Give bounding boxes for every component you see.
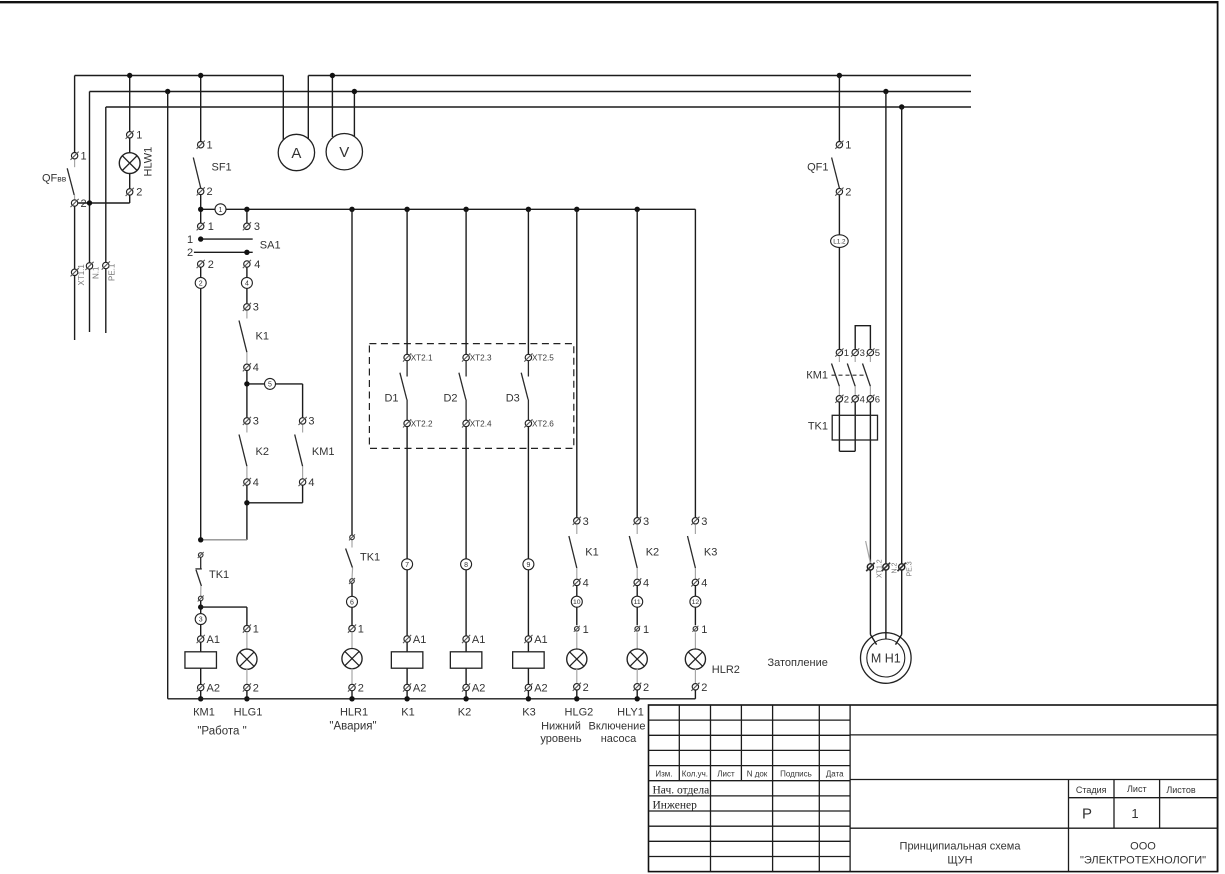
- svg-text:K2: K2: [458, 707, 471, 719]
- svg-text:K3: K3: [522, 707, 535, 719]
- wire D2 riser: [463, 207, 468, 354]
- svg-text:Изм.: Изм.: [655, 770, 672, 779]
- svg-text:3: 3: [199, 617, 203, 624]
- wire HLW1 branch: [127, 73, 132, 132]
- terminal PE.1: [102, 261, 117, 333]
- wire QF1 riser: [837, 73, 842, 141]
- svg-text:2: 2: [583, 682, 589, 694]
- title block document name: [900, 841, 1022, 867]
- node 1: [215, 204, 226, 215]
- svg-text:A1: A1: [472, 634, 485, 646]
- ammeter A: [278, 76, 314, 171]
- wire motor slash: [866, 541, 871, 563]
- svg-text:XT1.1: XT1.1: [77, 264, 86, 286]
- breaker SF1: [193, 140, 231, 199]
- wire KM1 pole2-pole3 hook: [855, 326, 870, 349]
- svg-text:Стадия: Стадия: [1076, 785, 1107, 795]
- wire motor leads: [870, 570, 901, 645]
- svg-text:1: 1: [253, 624, 259, 636]
- svg-text:1: 1: [208, 221, 214, 233]
- wire node4 riser: [246, 268, 248, 304]
- contact K1: [569, 516, 599, 590]
- svg-text:2: 2: [208, 259, 214, 271]
- svg-text:Р: Р: [1082, 806, 1092, 823]
- svg-text:ЩУН: ЩУН: [947, 855, 972, 867]
- svg-text:М Н1: М Н1: [871, 652, 901, 666]
- svg-text:QF1: QF1: [807, 162, 828, 174]
- svg-text:1: 1: [701, 624, 707, 636]
- breaker QFвв: [42, 151, 87, 211]
- svg-text:1: 1: [844, 348, 849, 359]
- sensor D3: [506, 361, 529, 421]
- motor M H1: [861, 633, 912, 684]
- svg-text:3: 3: [308, 416, 314, 428]
- svg-text:Инженер: Инженер: [653, 800, 698, 812]
- lamp HLR2: [685, 624, 740, 699]
- wire D3 to K3 coil: [527, 427, 529, 636]
- svg-text:2: 2: [81, 198, 87, 210]
- wire D1 to K1 coil: [406, 427, 408, 636]
- svg-text:3: 3: [254, 221, 260, 233]
- svg-text:XT2.2: XT2.2: [411, 419, 433, 428]
- svg-text:D1: D1: [384, 393, 398, 405]
- node 6: [347, 583, 358, 625]
- svg-text:насоса: насоса: [601, 733, 637, 745]
- svg-text:HLY1: HLY1: [617, 707, 644, 719]
- svg-text:4: 4: [254, 259, 260, 271]
- wire node3 junction: [198, 601, 247, 636]
- wire QF1 to L1.2: [838, 195, 840, 235]
- svg-text:1: 1: [1131, 806, 1138, 821]
- svg-text:D2: D2: [443, 393, 457, 405]
- svg-text:2: 2: [207, 186, 213, 198]
- title block company name: [1080, 841, 1206, 867]
- svg-text:4: 4: [245, 281, 249, 288]
- wire N bus: [90, 91, 972, 93]
- wire L1 phase bus: [75, 75, 971, 77]
- svg-text:КМ1: КМ1: [193, 707, 215, 719]
- title block header labels: [655, 770, 844, 779]
- svg-text:3: 3: [860, 348, 865, 359]
- svg-text:Лист: Лист: [717, 770, 735, 779]
- terminal N.2: [882, 563, 899, 574]
- svg-text:XT2.1: XT2.1: [411, 353, 433, 362]
- svg-text:Кол.уч.: Кол.уч.: [682, 770, 708, 779]
- wire SF1 riser: [198, 73, 203, 141]
- terminal N.1: [85, 262, 100, 332]
- contact TK1 NO: [346, 534, 381, 584]
- coil KM1: [185, 634, 247, 738]
- svg-text:3: 3: [701, 516, 707, 528]
- node 9: [523, 559, 534, 570]
- terminal XT2.6: [524, 419, 554, 428]
- svg-text:7: 7: [405, 562, 409, 569]
- svg-text:TK1: TK1: [209, 569, 229, 581]
- title block: [649, 705, 1218, 872]
- svg-text:6: 6: [875, 394, 880, 405]
- svg-text:4: 4: [583, 577, 589, 589]
- wire QF input riser: [74, 76, 76, 153]
- svg-text:уровень: уровень: [540, 733, 582, 745]
- coil K3: [513, 634, 548, 719]
- wire node2 riser: [200, 268, 202, 540]
- lamp HLG1: [234, 624, 263, 719]
- svg-text:QFвв: QFвв: [42, 173, 67, 185]
- node 2: [195, 277, 206, 288]
- svg-text:1: 1: [358, 624, 364, 636]
- svg-text:2: 2: [845, 186, 851, 198]
- lamp HLW1: [119, 130, 154, 199]
- svg-text:K1: K1: [256, 331, 269, 343]
- svg-text:A1: A1: [207, 634, 220, 646]
- svg-text:XT2.4: XT2.4: [470, 419, 492, 428]
- svg-text:XT2.5: XT2.5: [532, 353, 554, 362]
- svg-text:10: 10: [573, 599, 581, 606]
- svg-text:6: 6: [350, 599, 354, 606]
- terminal XT1.2: [866, 559, 883, 578]
- svg-text:N.1: N.1: [92, 266, 101, 279]
- svg-text:"Авария": "Авария": [329, 721, 376, 733]
- wire HLR1 branch riser: [349, 207, 354, 536]
- frame top border: [0, 1, 1219, 3]
- svg-text:Нач. отдела: Нач. отдела: [653, 785, 710, 797]
- svg-text:4: 4: [860, 394, 865, 405]
- svg-text:Дата: Дата: [826, 770, 844, 779]
- svg-text:КМ1: КМ1: [806, 370, 828, 382]
- svg-text:XT1.2: XT1.2: [876, 559, 883, 578]
- lamp HLG2: [540, 624, 593, 745]
- wire N riser right: [883, 89, 888, 564]
- svg-text:1: 1: [187, 234, 193, 246]
- svg-text:ООО: ООО: [1130, 841, 1156, 853]
- svg-text:Листов: Листов: [1166, 785, 1195, 795]
- switch SA1: [187, 221, 281, 271]
- sensor D1: [384, 361, 407, 421]
- node 5 junction: [244, 371, 302, 418]
- svg-text:3: 3: [253, 416, 259, 428]
- lamp HLR1: [329, 624, 376, 733]
- svg-text:"ЭЛЕКТРОТЕХНОЛОГИ": "ЭЛЕКТРОТЕХНОЛОГИ": [1080, 855, 1206, 867]
- wire L1.2 to KM1 pole1: [838, 247, 840, 349]
- node 11: [632, 586, 643, 625]
- title block stadia values: [1082, 806, 1139, 823]
- svg-text:4: 4: [643, 577, 649, 589]
- lamp HLY1: [589, 624, 650, 745]
- node 4: [241, 277, 252, 288]
- breaker QF1: [807, 140, 851, 199]
- svg-text:A2: A2: [413, 683, 426, 695]
- node 8: [461, 559, 472, 570]
- svg-text:Нижний: Нижний: [541, 721, 581, 733]
- svg-text:1: 1: [643, 624, 649, 636]
- sensor box dashed: [369, 344, 573, 449]
- svg-text:2: 2: [844, 394, 849, 405]
- net label L1.2: [831, 235, 849, 248]
- svg-text:D3: D3: [506, 393, 520, 405]
- node 12: [690, 586, 701, 625]
- svg-text:3: 3: [643, 516, 649, 528]
- contact K2: [629, 516, 659, 590]
- svg-text:K2: K2: [646, 547, 659, 559]
- svg-text:Затопление: Затопление: [768, 657, 828, 669]
- wire control N riser: [165, 89, 170, 699]
- svg-text:N.2: N.2: [891, 563, 898, 574]
- svg-text:9: 9: [526, 562, 530, 569]
- contact KM1 aux: [295, 416, 335, 489]
- label Затопление: [768, 657, 828, 669]
- voltmeter V: [326, 73, 362, 170]
- contact TK1 NC: [195, 552, 229, 602]
- node 3: [195, 614, 206, 625]
- contact K2 aux: [239, 416, 269, 489]
- wire D2 to K2 coil: [465, 427, 467, 636]
- svg-text:K3: K3: [704, 547, 717, 559]
- svg-text:3: 3: [583, 516, 589, 528]
- svg-text:1: 1: [136, 130, 142, 142]
- svg-text:HLG1: HLG1: [234, 707, 263, 719]
- svg-text:1: 1: [81, 151, 87, 163]
- terminal XT2.1: [403, 353, 433, 362]
- node 7: [402, 559, 413, 570]
- wire K2 lamp branch riser: [635, 207, 640, 518]
- terminal PE.3: [898, 561, 914, 576]
- wire D1 riser: [404, 207, 409, 354]
- svg-text:HLR1: HLR1: [340, 707, 368, 719]
- wire bottom rail: [168, 698, 696, 700]
- svg-text:2: 2: [187, 247, 193, 259]
- wire SA1 right branch: [244, 207, 249, 223]
- wire PE bus: [106, 106, 971, 108]
- svg-text:2: 2: [701, 682, 707, 694]
- svg-text:HLG2: HLG2: [565, 707, 594, 719]
- wire K3 lamp branch riser: [694, 209, 696, 517]
- svg-text:4: 4: [253, 477, 259, 489]
- coil K2: [450, 634, 485, 719]
- terminal XT2.2: [403, 419, 433, 428]
- svg-text:"Работа ": "Работа ": [197, 726, 246, 738]
- wire K2/KM1 join: [198, 486, 303, 543]
- terminal XT1.1: [71, 264, 87, 340]
- svg-text:1: 1: [219, 207, 223, 214]
- svg-text:12: 12: [692, 599, 700, 606]
- wire control bus: [198, 195, 695, 223]
- svg-text:K2: K2: [256, 446, 269, 458]
- svg-text:PE.3: PE.3: [907, 561, 914, 576]
- thermal relay TK1: [808, 415, 878, 440]
- svg-text:SF1: SF1: [212, 162, 232, 174]
- contactor KM1 main poles: [806, 348, 880, 405]
- svg-text:1: 1: [583, 624, 589, 636]
- wire QFвв to XT1.1: [74, 207, 76, 269]
- svg-text:2: 2: [358, 683, 364, 695]
- svg-text:Лист: Лист: [1127, 784, 1147, 794]
- svg-text:2: 2: [136, 187, 142, 199]
- contact K1 aux: [239, 302, 269, 374]
- wire HLW1 bottom to QFвв: [78, 195, 130, 205]
- svg-text:HLW1: HLW1: [143, 147, 155, 177]
- svg-text:SA1: SA1: [260, 240, 281, 252]
- svg-text:A1: A1: [534, 634, 547, 646]
- svg-text:Подпись: Подпись: [780, 770, 812, 779]
- wire K1 lamp branch riser: [574, 207, 579, 518]
- svg-text:TK1: TK1: [808, 421, 828, 433]
- node 5: [265, 378, 276, 389]
- svg-text:4: 4: [253, 362, 259, 374]
- terminal XT2.4: [462, 419, 492, 428]
- title block stadia header: [1076, 784, 1196, 795]
- svg-text:A2: A2: [534, 683, 547, 695]
- svg-text:K1: K1: [401, 707, 414, 719]
- svg-text:A2: A2: [472, 683, 485, 695]
- svg-text:3: 3: [253, 302, 259, 314]
- svg-text:8: 8: [464, 562, 468, 569]
- svg-text:5: 5: [875, 348, 880, 359]
- svg-text:A2: A2: [207, 683, 220, 695]
- svg-text:KM1: KM1: [312, 446, 335, 458]
- svg-text:A1: A1: [413, 634, 426, 646]
- svg-text:1: 1: [845, 140, 851, 152]
- wire PE riser right: [899, 104, 904, 564]
- svg-text:TK1: TK1: [360, 552, 380, 564]
- svg-text:Принципиальная схема: Принципиальная схема: [900, 841, 1022, 853]
- svg-text:V: V: [339, 144, 349, 161]
- svg-text:2: 2: [199, 281, 203, 288]
- sensor D2: [443, 361, 466, 421]
- svg-text:Включение: Включение: [589, 721, 646, 733]
- title block signature rows: [653, 785, 710, 812]
- node 10: [571, 586, 582, 625]
- terminal XT2.3: [462, 353, 492, 362]
- svg-text:4: 4: [308, 477, 314, 489]
- wire TK1 heater loop: [839, 402, 870, 564]
- coil K1: [391, 634, 426, 719]
- frame right border: [1217, 1, 1219, 872]
- contact K3: [688, 516, 718, 590]
- svg-text:XT2.3: XT2.3: [470, 353, 492, 362]
- wire N riser left: [89, 92, 91, 263]
- svg-text:N док: N док: [747, 770, 768, 779]
- wire PE riser left: [105, 107, 107, 262]
- svg-text:2: 2: [643, 682, 649, 694]
- svg-text:4: 4: [701, 577, 707, 589]
- svg-text:5: 5: [268, 382, 272, 389]
- svg-text:HLR2: HLR2: [712, 664, 740, 676]
- svg-text:2: 2: [253, 683, 259, 695]
- svg-text:1: 1: [207, 140, 213, 152]
- svg-text:L1.2: L1.2: [833, 238, 846, 245]
- svg-text:PE.1: PE.1: [108, 263, 117, 281]
- svg-text:K1: K1: [585, 547, 598, 559]
- svg-text:XT2.6: XT2.6: [532, 419, 554, 428]
- wire D3 riser: [526, 207, 531, 354]
- svg-text:A: A: [291, 145, 301, 162]
- svg-text:11: 11: [634, 599, 641, 606]
- terminal XT2.5: [524, 353, 554, 362]
